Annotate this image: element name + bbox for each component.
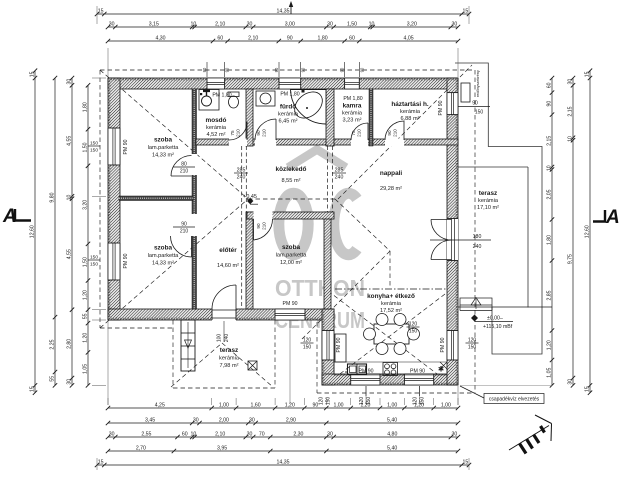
window kitchen east (447, 331, 458, 361)
svg-text:210: 210 (262, 129, 267, 137)
svg-text:100: 100 (217, 334, 223, 343)
window szoba2 west (108, 243, 120, 280)
svg-text:PM 90: PM 90 (123, 253, 129, 268)
svg-text:150: 150 (90, 255, 98, 261)
svg-text:90: 90 (301, 67, 306, 72)
door haztartasi 90/210 (403, 121, 405, 140)
svg-text:30: 30 (452, 431, 458, 437)
svg-text:17,10 m²: 17,10 m² (477, 205, 499, 211)
svg-text:előtér: előtér (219, 247, 237, 254)
svg-text:1,50: 1,50 (82, 257, 88, 267)
svg-text:kerámia: kerámia (381, 301, 402, 307)
top arrow (290, 3, 292, 14)
svg-text:30: 30 (247, 21, 253, 27)
svg-text:csapadékvíz elvezetés: csapadékvíz elvezetés (489, 397, 540, 403)
svg-text:2,85: 2,85 (546, 290, 552, 300)
svg-text:közlekedő: közlekedő (276, 166, 307, 173)
svg-text:4,55: 4,55 (66, 249, 72, 259)
svg-text:75: 75 (230, 130, 235, 136)
svg-text:150: 150 (303, 345, 312, 351)
exterior wall kitchen south (322, 374, 458, 385)
svg-text:15: 15 (29, 386, 35, 392)
svg-text:±0,00–: ±0,00– (487, 316, 503, 322)
svg-text:1,00: 1,00 (441, 402, 451, 408)
svg-text:30: 30 (249, 417, 255, 423)
svg-text:konyha+ étkező: konyha+ étkező (367, 293, 415, 300)
shutter box right wall (461, 83, 470, 102)
svg-text:4,52 m²: 4,52 m² (207, 132, 226, 138)
svg-text:14,35: 14,35 (277, 8, 290, 14)
terasz (right) roof overhang outline (455, 63, 542, 354)
svg-text:1,20: 1,20 (546, 340, 552, 350)
exterior wall north (108, 78, 458, 89)
kitchen stove (383, 363, 398, 376)
door mosdo 75/210 (246, 122, 248, 140)
svg-text:2,90: 2,90 (286, 417, 296, 423)
svg-text:3,20: 3,20 (407, 21, 417, 27)
svg-text:kerámia: kerámia (400, 109, 421, 115)
svg-text:7,98 m²: 7,98 m² (220, 363, 239, 369)
svg-text:PM 1,80: PM 1,80 (212, 93, 231, 99)
door szoba bottom-left 90/210 (191, 236, 193, 257)
svg-text:2,80: 2,80 (66, 339, 72, 349)
svg-text:A: A (605, 207, 620, 228)
svg-text:redőnyszekrény: redőnyszekrény (476, 70, 480, 97)
svg-text:8,55 m²: 8,55 m² (282, 178, 301, 184)
door openings (white cuts) (229, 139, 247, 147)
french door 180/240 (431, 219, 452, 221)
svg-text:2,05: 2,05 (546, 189, 552, 199)
kitchen counter (334, 362, 447, 375)
svg-text:210: 210 (180, 169, 189, 175)
svg-text:kerámia: kerámia (342, 111, 363, 117)
svg-text:90: 90 (287, 35, 293, 41)
svg-text:1,05: 1,05 (82, 364, 88, 374)
svg-text:PM 90: PM 90 (410, 369, 425, 375)
north arrow (509, 415, 552, 454)
interior wall W3 (196, 139, 458, 145)
svg-text:4,80: 4,80 (387, 431, 397, 437)
svg-text:240: 240 (335, 175, 344, 181)
svg-text:55: 55 (49, 376, 55, 382)
extension lines bottom (289, 320, 291, 404)
svg-text:210: 210 (262, 222, 267, 230)
svg-text:3,00: 3,00 (285, 21, 295, 27)
svg-text:120: 120 (409, 322, 418, 328)
svg-text:210: 210 (236, 129, 241, 137)
svg-text:2,10: 2,10 (215, 431, 225, 437)
svg-text:3,15: 3,15 (149, 21, 159, 27)
svg-text:17,52 m²: 17,52 m² (380, 308, 402, 314)
watermark OC Otthon Centrum logo (279, 150, 357, 255)
entrance door 100/240 (235, 285, 237, 309)
svg-text:90: 90 (472, 101, 478, 107)
terrace drain square (248, 361, 257, 370)
svg-text:120: 120 (412, 397, 418, 406)
interior wall W5 (326, 89, 334, 146)
svg-text:2,70: 2,70 (136, 445, 146, 451)
svg-text:15: 15 (463, 8, 469, 14)
door kamra 75/210 (367, 123, 369, 140)
svg-text:55: 55 (82, 313, 88, 319)
mosdo washbasin (199, 90, 219, 111)
svg-text:75: 75 (351, 130, 356, 136)
svg-text:90: 90 (359, 67, 364, 72)
svg-text:10: 10 (546, 165, 552, 171)
svg-text:150: 150 (90, 141, 98, 147)
svg-text:3,23 m²: 3,23 m² (343, 118, 362, 124)
interior wall szoba east (324, 212, 331, 309)
svg-text:14,33 m²: 14,33 m² (152, 261, 174, 267)
svg-text:15: 15 (98, 459, 104, 465)
svg-text:kerámia: kerámia (219, 356, 240, 362)
window haztartasi east (447, 93, 458, 115)
svg-text:2,15: 2,15 (567, 106, 573, 116)
extension lines top (107, 48, 109, 77)
partition wall W1 (192, 89, 197, 309)
level marker +0,00 (471, 315, 478, 322)
svg-text:14,60 m²: 14,60 m² (217, 263, 239, 269)
svg-text:1,60: 1,60 (251, 402, 261, 408)
svg-text:mosdó: mosdó (206, 117, 227, 124)
window kamra north (345, 78, 360, 89)
window furdo north (279, 78, 301, 89)
top dimension rows (97, 13, 469, 15)
svg-text:150: 150 (420, 397, 426, 406)
svg-text:lam.parketta: lam.parketta (148, 145, 180, 151)
svg-text:10: 10 (567, 136, 573, 142)
svg-text:60: 60 (349, 35, 355, 41)
svg-text:15: 15 (98, 8, 104, 14)
bottom dimension rows (108, 407, 458, 409)
right dimension columns (551, 78, 553, 385)
furdo washbasin (256, 91, 275, 106)
svg-text:szoba: szoba (154, 245, 173, 252)
svg-text:285: 285 (335, 168, 344, 174)
mosdo WC (228, 92, 239, 97)
svg-text:120: 120 (468, 338, 477, 344)
svg-text:4,55: 4,55 (66, 136, 72, 146)
interior wall W4 (246, 89, 253, 146)
svg-text:fürdő: fürdő (280, 104, 296, 111)
svg-text:OTTHON: OTTHON (275, 275, 365, 301)
exterior wall south (west part) (108, 309, 334, 320)
svg-text:150: 150 (90, 261, 98, 267)
svg-text:15: 15 (29, 71, 35, 77)
svg-text:15: 15 (584, 386, 590, 392)
svg-text:terasz: terasz (479, 190, 497, 197)
svg-text:szoba: szoba (154, 137, 173, 144)
svg-text:210: 210 (357, 129, 362, 137)
svg-text:150: 150 (326, 397, 332, 406)
svg-text:1,50: 1,50 (347, 21, 357, 27)
svg-text:2,25: 2,25 (49, 339, 55, 349)
svg-text:9,75: 9,75 (567, 254, 573, 264)
svg-text:30: 30 (109, 21, 115, 27)
svg-text:285: 285 (237, 168, 246, 174)
svg-text:70: 70 (259, 431, 265, 437)
svg-text:30: 30 (567, 79, 573, 85)
svg-text:1,00: 1,00 (333, 402, 343, 408)
svg-text:30: 30 (66, 79, 72, 85)
svg-text:120: 120 (359, 397, 365, 406)
svg-text:150: 150 (409, 329, 418, 335)
svg-text:30: 30 (66, 379, 72, 385)
svg-text:kamra: kamra (343, 103, 362, 110)
svg-text:6,88 m²: 6,88 m² (401, 116, 420, 122)
extension lines right (458, 306, 552, 308)
svg-text:lam.parketta: lam.parketta (148, 253, 180, 259)
csapadekviz elvezetes label (460, 386, 484, 398)
svg-text:90: 90 (256, 223, 261, 229)
window kitchen south 2 (404, 374, 433, 385)
mosdo point (200, 93, 202, 95)
svg-text:90: 90 (546, 101, 552, 107)
svg-text:3,45: 3,45 (145, 417, 155, 423)
svg-text:5,40: 5,40 (387, 445, 397, 451)
svg-text:90: 90 (274, 67, 279, 72)
svg-text:14,33 m²: 14,33 m² (152, 153, 174, 159)
svg-text:12,60: 12,60 (584, 225, 590, 238)
extension ticks above top-wall windows (206, 62, 208, 77)
svg-text:nappali: nappali (380, 170, 403, 177)
svg-text:PM 1,80: PM 1,80 (343, 96, 362, 102)
svg-text:PM 90: PM 90 (283, 301, 298, 307)
svg-text:6,45 m²: 6,45 m² (279, 119, 298, 125)
svg-text:29,28 m²: 29,28 m² (380, 186, 402, 192)
svg-text:1,05: 1,05 (546, 368, 552, 378)
svg-text:1,80: 1,80 (82, 102, 88, 112)
interior wall szoba north (247, 212, 334, 219)
svg-text:120: 120 (319, 397, 325, 406)
svg-text:1,00: 1,00 (219, 402, 229, 408)
svg-text:210: 210 (393, 129, 398, 137)
kitchen sink (348, 364, 367, 375)
svg-text:120: 120 (303, 338, 312, 344)
window kitchen west (322, 331, 334, 361)
svg-text:30: 30 (247, 431, 253, 437)
svg-text:PM 90: PM 90 (440, 337, 446, 352)
left dimension columns (34, 71, 36, 393)
svg-text:2,15: 2,15 (546, 136, 552, 146)
svg-text:90: 90 (202, 67, 207, 72)
svg-text:1,20: 1,20 (82, 290, 88, 300)
entrance steps (181, 320, 195, 371)
svg-text:30: 30 (327, 431, 333, 437)
door szoba top-left 80/210 (171, 175, 192, 177)
svg-text:90: 90 (225, 67, 230, 72)
svg-text:PM 90: PM 90 (359, 369, 374, 375)
right step (460, 298, 492, 305)
svg-text:30: 30 (567, 379, 573, 385)
svg-text:150: 150 (475, 110, 484, 116)
svg-text:PM 90: PM 90 (336, 337, 342, 352)
svg-text:2,10: 2,10 (215, 21, 225, 27)
svg-text:2,30: 2,30 (293, 431, 303, 437)
svg-text:10: 10 (191, 21, 197, 27)
svg-text:14,35: 14,35 (277, 459, 290, 465)
svg-text:30: 30 (327, 21, 333, 27)
window szoba3 south (275, 309, 305, 320)
90/150 small top right (458, 106, 490, 108)
svg-text:12,00 m²: 12,00 m² (280, 260, 302, 266)
svg-text:15: 15 (463, 459, 469, 465)
interior wall szoba west (246, 212, 253, 309)
furdo corner bathtub (291, 90, 327, 125)
svg-text:kerámia: kerámia (278, 112, 299, 118)
svg-text:PM 90: PM 90 (438, 100, 444, 115)
dining table (374, 324, 409, 344)
west counter cabinet (335, 334, 346, 362)
svg-text:60: 60 (546, 82, 552, 88)
kitchen corner drain (440, 362, 447, 369)
svg-text:3,20: 3,20 (82, 200, 88, 210)
svg-text:10: 10 (191, 431, 197, 437)
svg-text:5,40: 5,40 (387, 417, 397, 423)
svg-text:150: 150 (90, 147, 98, 153)
svg-text:210: 210 (180, 229, 189, 235)
svg-text:PM 90: PM 90 (123, 139, 129, 154)
svg-text:1,80: 1,80 (546, 235, 552, 245)
svg-text:háztartási h.: háztartási h. (391, 101, 429, 108)
svg-text:kerámia: kerámia (478, 198, 499, 204)
svg-text:90: 90 (256, 130, 261, 136)
svg-text:1,20: 1,20 (82, 333, 88, 343)
svg-text:30: 30 (109, 431, 115, 437)
size labels below kitchen windows (365, 386, 367, 396)
svg-text:60: 60 (217, 35, 223, 41)
svg-text:2,10: 2,10 (248, 35, 258, 41)
svg-text:60: 60 (182, 431, 188, 437)
svg-text:kerámia: kerámia (206, 125, 227, 131)
svg-text:150: 150 (468, 345, 477, 351)
svg-text:+115,10 mBf: +115,10 mBf (483, 324, 513, 330)
svg-text:30: 30 (193, 417, 199, 423)
roof eaves and ridge dashed overlay (100, 69, 475, 71)
partition wall W6 (369, 89, 373, 146)
svg-text:15: 15 (584, 71, 590, 77)
exterior wall kitchen west (322, 309, 334, 385)
svg-text:90: 90 (387, 130, 392, 136)
terasz floor edge (458, 166, 528, 168)
svg-text:150: 150 (366, 397, 372, 406)
svg-text:9,80: 9,80 (49, 192, 55, 202)
svg-text:terasz: terasz (220, 347, 238, 354)
window kitchen south 1 (351, 374, 380, 385)
partition wall W2 (119, 196, 193, 201)
exterior wall west (108, 78, 120, 320)
svg-text:12,60: 12,60 (29, 225, 35, 238)
svg-text:szoba: szoba (282, 244, 301, 251)
svg-text:1,80: 1,80 (318, 35, 328, 41)
svg-text:PM 1,80: PM 1,80 (280, 92, 299, 98)
svg-text:90: 90 (181, 222, 187, 228)
extension lines left (92, 77, 106, 79)
svg-text:240: 240 (237, 175, 246, 181)
window mosdo north (207, 78, 225, 89)
svg-text:10: 10 (369, 21, 375, 27)
svg-text:90: 90 (313, 402, 319, 408)
svg-text:4,05: 4,05 (404, 35, 414, 41)
svg-text:4,25: 4,25 (155, 402, 165, 408)
svg-text:10: 10 (66, 195, 72, 201)
svg-text:3,95: 3,95 (217, 445, 227, 451)
svg-text:240: 240 (224, 334, 230, 343)
svg-text:1,50: 1,50 (82, 142, 88, 152)
svg-text:2,00: 2,00 (219, 417, 229, 423)
svg-text:80: 80 (181, 162, 187, 168)
door szoba17 90/210 (253, 219, 255, 240)
svg-text:240: 240 (473, 244, 482, 250)
door furdo 90/210 (275, 119, 277, 140)
svg-text:180: 180 (473, 234, 482, 240)
svg-text:1,00: 1,00 (387, 402, 397, 408)
window szoba1 west (108, 128, 120, 165)
svg-text:lam.parketta: lam.parketta (276, 253, 308, 259)
svg-text:4,30: 4,30 (155, 35, 165, 41)
svg-text:30: 30 (452, 21, 458, 27)
svg-text:2,55: 2,55 (141, 431, 151, 437)
svg-text:90: 90 (340, 67, 345, 72)
exterior wall east (447, 78, 458, 385)
